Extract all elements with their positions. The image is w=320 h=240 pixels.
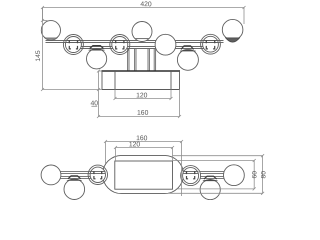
ring M1 front view bbox=[88, 165, 107, 184]
sphere B2 below rod bbox=[177, 46, 198, 70]
svg-text:120: 120 bbox=[129, 141, 141, 148]
dimension 145 bbox=[41, 8, 102, 92]
dimension 160 top view bbox=[97, 90, 181, 119]
wire rod rail B top view bbox=[70, 46, 215, 48]
sphere S6 top-right bbox=[222, 19, 243, 42]
sphere R1 front view bbox=[224, 165, 245, 186]
wire rod rail A front view bbox=[57, 170, 104, 172]
svg-text:60: 60 bbox=[252, 171, 259, 179]
ring M2 front view bbox=[181, 166, 201, 186]
sphere A2 above rod bbox=[132, 22, 152, 42]
ring R3 bbox=[201, 34, 221, 54]
sphere C on axis bbox=[155, 34, 176, 55]
svg-text:120: 120 bbox=[136, 92, 148, 99]
wire stub right front view bbox=[200, 170, 225, 172]
svg-text:420: 420 bbox=[140, 1, 152, 8]
dimension 120 top view bbox=[114, 90, 173, 101]
dimension 120 front view bbox=[114, 146, 174, 161]
wire stem left pair bbox=[127, 49, 129, 72]
svg-text:160: 160 bbox=[137, 110, 149, 117]
svg-text:40: 40 bbox=[91, 100, 99, 107]
sphere L4 below front view bbox=[200, 176, 220, 200]
wire rod rail A top view bbox=[46, 40, 224, 42]
svg-text:145: 145 bbox=[35, 50, 42, 62]
wire rod rail B front view bbox=[57, 175, 104, 177]
dimension 60 front view bbox=[173, 159, 256, 190]
sphere L1 front view bbox=[41, 165, 61, 185]
wire stem right pair bbox=[147, 49, 149, 72]
ring R1 bbox=[63, 35, 83, 55]
canopy capsule front view bbox=[103, 155, 184, 193]
dimension 420 bbox=[41, 6, 246, 24]
ring R2 bbox=[110, 35, 130, 55]
dimension 80 front view bbox=[168, 154, 264, 195]
canopy inner rect front view bbox=[115, 161, 173, 189]
sphere S1 top-left bbox=[41, 21, 60, 41]
dimension 40 top view bbox=[91, 70, 102, 117]
sphere B1 below rod bbox=[87, 46, 107, 69]
sphere L2 below front view bbox=[64, 176, 85, 200]
canopy top view bbox=[101, 71, 180, 90]
dimension 160 front view bbox=[104, 140, 183, 196]
svg-text:80: 80 bbox=[260, 171, 267, 179]
